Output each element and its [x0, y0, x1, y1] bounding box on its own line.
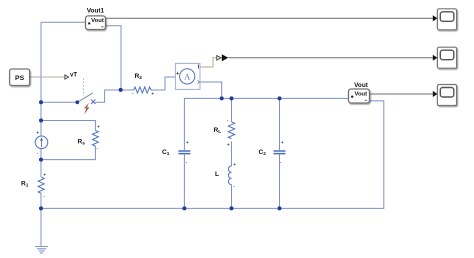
- svg-text:+: +: [151, 92, 154, 98]
- ground: [35, 247, 48, 254]
- resistor RL: [228, 122, 234, 139]
- junction: Vout1 minus / R2 input node: [119, 88, 123, 92]
- wire: source loop bottom: [41, 146, 95, 160]
- PS block: [10, 69, 30, 86]
- svg-text:+: +: [97, 125, 100, 131]
- svg-text:Vout: Vout: [91, 18, 104, 24]
- junction: left rail / switch feed: [39, 100, 43, 104]
- svg-text:-: -: [233, 184, 235, 190]
- svg-text:C1: C1: [162, 149, 170, 157]
- scope 1: [437, 9, 456, 30]
- wire: left vertical rail: [40, 22, 42, 246]
- svg-text:A: A: [184, 71, 191, 81]
- inductor L: [228, 166, 231, 185]
- junction: C2 branch / bottom rail: [278, 206, 282, 210]
- signal line to Scope2: [228, 57, 433, 59]
- resistor R1: [38, 177, 44, 193]
- svg-text:L: L: [215, 171, 219, 178]
- svg-text:Vout: Vout: [354, 91, 367, 97]
- svg-text:-: -: [227, 118, 229, 124]
- switch blade: [77, 93, 93, 102]
- svg-text:+: +: [43, 172, 46, 178]
- open arrow: [217, 56, 221, 61]
- wire: switch feed from left rail: [41, 101, 77, 103]
- wire: C2 branch: [279, 98, 281, 208]
- signal line to Scope1: [106, 17, 433, 19]
- svg-text:Vout: Vout: [354, 82, 369, 89]
- scope 2: [437, 47, 456, 68]
- svg-text:vT: vT: [70, 73, 77, 79]
- svg-text:+: +: [227, 143, 230, 149]
- svg-text:R2: R2: [135, 73, 143, 81]
- capacitor C1: [178, 151, 190, 154]
- signal line to Scope3: [370, 93, 433, 95]
- wire: ammeter minus down to top rail: [200, 82, 222, 98]
- current source I1: [35, 136, 48, 149]
- wire: bottom rail and Vout minus return: [41, 101, 384, 208]
- ammeter U1: [175, 63, 200, 89]
- junction: RL branch / top rail: [230, 96, 234, 100]
- vT open arrow: [65, 75, 69, 79]
- svg-text:Vout1: Vout1: [87, 8, 105, 15]
- svg-text:+: +: [186, 140, 189, 146]
- svg-text:-: -: [186, 160, 188, 166]
- svg-text:+: +: [176, 71, 179, 77]
- junction: C2 branch / top rail: [278, 96, 282, 100]
- switch lightning icon: [84, 103, 89, 113]
- svg-text:RL: RL: [214, 127, 222, 135]
- wire: switch output to R2: [95, 90, 134, 102]
- svg-text:R1: R1: [21, 181, 29, 189]
- capacitor C2: [274, 151, 286, 154]
- svg-text:-: -: [43, 194, 45, 200]
- svg-text:-: -: [96, 146, 98, 152]
- filled arrow: [222, 54, 228, 61]
- voltage sensor Vout1: [86, 16, 106, 30]
- wire: source loop top: [41, 121, 95, 131]
- svg-text:PS: PS: [15, 75, 25, 82]
- svg-text:-: -: [280, 160, 282, 166]
- PS physical-signal line: [30, 76, 65, 78]
- ammeter I output line (physical signal): [200, 58, 217, 67]
- svg-text:Rs: Rs: [78, 139, 86, 147]
- resistor R2: [134, 87, 151, 93]
- junction: left rail / source loop bottom: [39, 158, 43, 162]
- wire: top rail with C1 drop: [184, 98, 348, 150]
- wire: top-left horizontal to Vout1 + port: [41, 21, 86, 23]
- junction: left rail / bottom rail / ground: [39, 206, 43, 210]
- svg-text:-: -: [37, 150, 39, 156]
- junction: left rail / source loop top: [39, 119, 43, 123]
- resistor Rs: [92, 130, 98, 146]
- svg-text:C2: C2: [259, 149, 267, 157]
- junction: switch hinge: [75, 100, 79, 104]
- svg-text:+: +: [281, 140, 284, 146]
- svg-text:-: -: [132, 90, 134, 96]
- wire: Vout1 minus down to R2 node: [106, 26, 122, 90]
- switch control dotted line: [83, 78, 85, 96]
- wire: C1 bottom lead: [183, 154, 185, 208]
- scope 3: [437, 85, 456, 106]
- wire: RL / L branch: [231, 98, 233, 208]
- junction: ammeter return / top rail: [220, 96, 224, 100]
- junction: C1 branch / bottom rail: [182, 206, 186, 210]
- switch contact x: [91, 100, 95, 104]
- svg-text:+: +: [233, 162, 236, 168]
- junction: L branch / bottom rail: [230, 206, 234, 210]
- voltage sensor Vout: [349, 89, 370, 103]
- svg-text:+: +: [36, 130, 39, 136]
- wire: R2 to ammeter input: [151, 77, 175, 90]
